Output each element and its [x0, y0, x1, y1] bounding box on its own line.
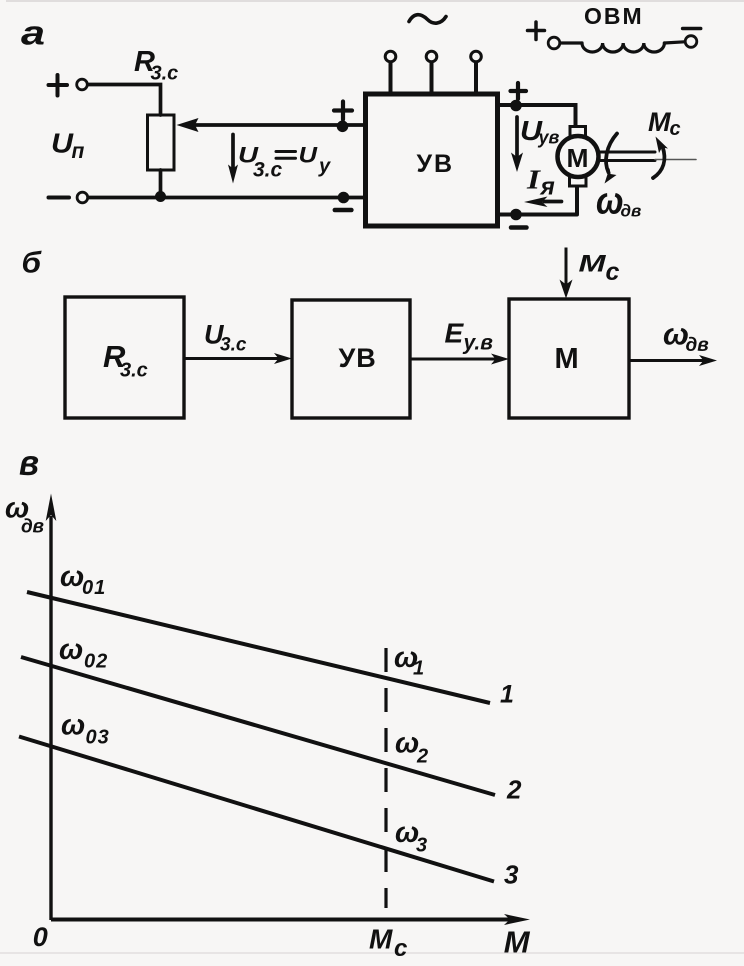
svg-text:с: с: [606, 258, 620, 286]
svg-text:ω: ω: [59, 634, 83, 666]
svg-text:ув: ув: [538, 127, 560, 147]
svg-text:ω: ω: [596, 179, 624, 222]
svg-text:М: М: [555, 343, 579, 375]
svg-text:а: а: [21, 14, 45, 52]
svg-text:U: U: [51, 128, 74, 159]
svg-text:E: E: [445, 317, 465, 348]
svg-text:дв: дв: [686, 335, 709, 356]
svg-text:я: я: [539, 173, 555, 200]
svg-text:дв: дв: [621, 201, 642, 220]
svg-text:2: 2: [416, 746, 428, 768]
svg-text:0: 0: [33, 922, 48, 952]
svg-text:1: 1: [413, 658, 424, 680]
svg-text:02: 02: [84, 651, 108, 673]
svg-text:у: у: [318, 155, 331, 177]
svg-text:дв: дв: [21, 517, 44, 538]
svg-text:M: M: [648, 107, 671, 137]
svg-text:3: 3: [504, 860, 519, 890]
svg-text:УВ: УВ: [339, 343, 377, 373]
svg-text:3: 3: [416, 835, 427, 857]
svg-text:3.с: 3.с: [120, 360, 148, 382]
svg-text:б: б: [22, 247, 43, 280]
svg-text:у.в: у.в: [463, 332, 494, 355]
svg-text:в: в: [19, 442, 39, 483]
svg-text:ω: ω: [60, 561, 84, 593]
svg-text:М: М: [504, 924, 531, 959]
svg-text:п: п: [72, 140, 85, 163]
svg-text:М: М: [567, 143, 589, 173]
svg-text:U: U: [299, 142, 319, 167]
svg-text:2: 2: [506, 775, 522, 805]
svg-text:с: с: [394, 935, 407, 962]
svg-text:3.с: 3.с: [253, 159, 283, 182]
svg-text:03: 03: [86, 727, 110, 749]
svg-text:УВ: УВ: [417, 150, 455, 178]
svg-text:01: 01: [82, 577, 106, 599]
svg-text:3.с: 3.с: [151, 63, 179, 85]
svg-text:ω: ω: [61, 710, 85, 742]
svg-text:1: 1: [500, 680, 514, 708]
svg-text:ω: ω: [395, 728, 419, 760]
svg-text:M: M: [579, 250, 607, 277]
svg-text:3.с: 3.с: [220, 335, 247, 356]
svg-text:I: I: [526, 165, 542, 195]
svg-text:ОВМ: ОВМ: [584, 3, 644, 29]
svg-text:с: с: [670, 118, 681, 140]
svg-text:M: M: [369, 924, 393, 955]
